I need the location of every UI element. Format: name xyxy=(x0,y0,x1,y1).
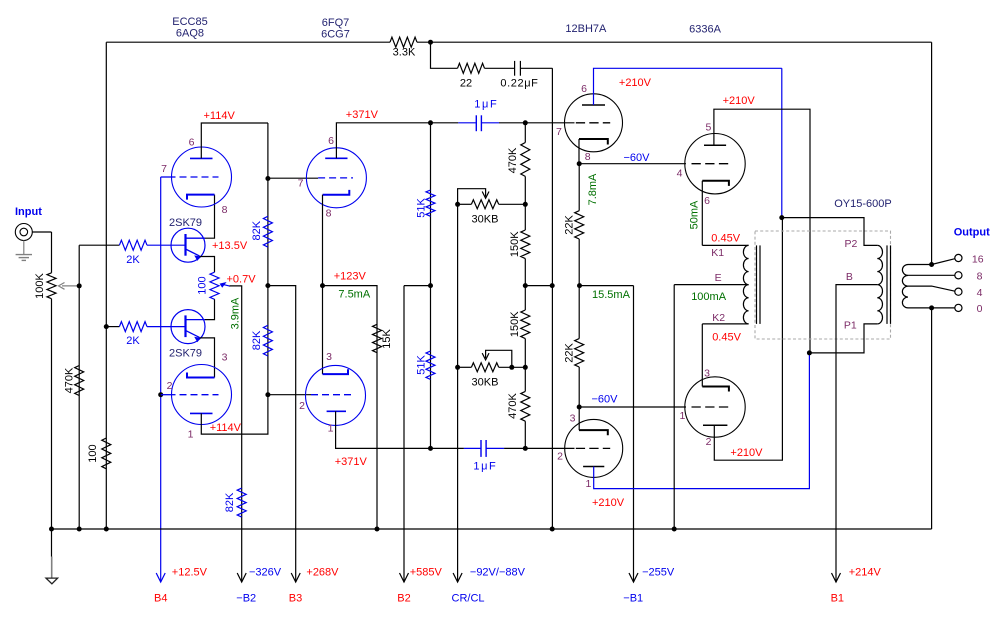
svg-text:3.3K: 3.3K xyxy=(393,46,416,58)
svg-text:50mA: 50mA xyxy=(689,200,701,229)
svg-text:B2: B2 xyxy=(397,593,410,605)
svg-text:−60V: −60V xyxy=(624,152,651,164)
svg-text:6: 6 xyxy=(189,137,195,149)
svg-text:+210V: +210V xyxy=(592,497,625,509)
svg-text:51K: 51K xyxy=(416,355,428,375)
svg-text:1: 1 xyxy=(585,478,591,490)
svg-text:7.5mA: 7.5mA xyxy=(338,289,370,301)
svg-text:−60V: −60V xyxy=(592,394,619,406)
svg-text:K2: K2 xyxy=(712,312,725,324)
svg-text:6: 6 xyxy=(704,195,710,207)
svg-text:1: 1 xyxy=(328,422,334,434)
svg-text:2SK79: 2SK79 xyxy=(169,348,202,360)
svg-text:OY15-600P: OY15-600P xyxy=(834,198,891,210)
svg-text:+268V: +268V xyxy=(306,566,339,578)
svg-text:+114V: +114V xyxy=(204,110,236,122)
svg-text:15.5mA: 15.5mA xyxy=(592,289,631,301)
svg-text:0: 0 xyxy=(977,303,983,315)
svg-text:3: 3 xyxy=(570,413,576,425)
svg-text:5: 5 xyxy=(705,122,711,134)
svg-text:470K: 470K xyxy=(507,147,519,173)
svg-text:K1: K1 xyxy=(711,247,724,259)
svg-text:7.8mA: 7.8mA xyxy=(587,173,599,205)
svg-text:6336A: 6336A xyxy=(689,23,721,35)
svg-text:+13.5V: +13.5V xyxy=(212,240,248,252)
svg-text:16: 16 xyxy=(972,253,984,265)
svg-text:−92V/−88V: −92V/−88V xyxy=(470,566,526,578)
svg-text:+371V: +371V xyxy=(335,456,368,468)
svg-text:−255V: −255V xyxy=(642,566,675,578)
svg-text:30KB: 30KB xyxy=(472,214,499,226)
svg-text:1μF: 1μF xyxy=(473,460,497,472)
svg-text:+371V: +371V xyxy=(346,109,379,121)
svg-text:B4: B4 xyxy=(154,593,167,605)
svg-text:2K: 2K xyxy=(126,254,140,266)
svg-text:6CG7: 6CG7 xyxy=(321,28,350,40)
svg-text:3: 3 xyxy=(326,351,332,363)
svg-text:1: 1 xyxy=(679,410,685,422)
svg-text:6AQ8: 6AQ8 xyxy=(176,27,204,39)
svg-text:−B2: −B2 xyxy=(236,593,256,605)
svg-text:82K: 82K xyxy=(251,330,263,350)
svg-text:+585V: +585V xyxy=(410,566,443,578)
svg-text:6FQ7: 6FQ7 xyxy=(322,17,350,29)
svg-text:7: 7 xyxy=(161,163,167,175)
svg-text:1: 1 xyxy=(188,429,194,441)
svg-text:2K: 2K xyxy=(126,335,140,347)
svg-text:7: 7 xyxy=(298,178,304,190)
svg-text:+210V: +210V xyxy=(723,95,756,107)
svg-text:B3: B3 xyxy=(289,593,302,605)
svg-text:0.45V: 0.45V xyxy=(711,232,740,244)
svg-text:470K: 470K xyxy=(507,392,519,418)
svg-text:15K: 15K xyxy=(381,329,393,349)
svg-text:+210V: +210V xyxy=(730,447,763,459)
svg-text:P1: P1 xyxy=(844,320,857,332)
svg-text:8: 8 xyxy=(977,271,983,283)
svg-text:22K: 22K xyxy=(564,342,576,362)
svg-text:−B1: −B1 xyxy=(623,593,643,605)
svg-text:3.9mA: 3.9mA xyxy=(230,297,242,329)
svg-text:6: 6 xyxy=(328,135,334,147)
svg-text:8: 8 xyxy=(585,151,591,163)
svg-text:6: 6 xyxy=(581,83,587,95)
svg-text:ECC85: ECC85 xyxy=(172,16,207,28)
svg-text:4: 4 xyxy=(977,287,983,299)
svg-text:470K: 470K xyxy=(64,367,76,393)
svg-text:2: 2 xyxy=(299,400,305,412)
svg-text:30KB: 30KB xyxy=(472,377,499,389)
svg-text:P2: P2 xyxy=(845,238,858,250)
svg-text:0.22μF: 0.22μF xyxy=(500,77,538,89)
svg-text:100mA: 100mA xyxy=(691,291,727,303)
svg-text:2: 2 xyxy=(706,436,712,448)
svg-text:+114V: +114V xyxy=(210,422,242,434)
svg-text:22K: 22K xyxy=(564,214,576,234)
svg-text:2: 2 xyxy=(557,451,563,463)
svg-text:82K: 82K xyxy=(251,220,263,240)
svg-text:B1: B1 xyxy=(831,593,844,605)
svg-text:150K: 150K xyxy=(509,231,521,257)
svg-text:51K: 51K xyxy=(416,198,428,218)
svg-text:2SK79: 2SK79 xyxy=(169,217,202,229)
svg-text:+12.5V: +12.5V xyxy=(172,566,208,578)
svg-text:2: 2 xyxy=(167,380,173,392)
svg-text:−326V: −326V xyxy=(249,566,282,578)
svg-text:+210V: +210V xyxy=(619,77,652,89)
svg-text:0.45V: 0.45V xyxy=(712,332,741,344)
svg-text:Output: Output xyxy=(954,226,990,238)
svg-text:4: 4 xyxy=(677,167,683,179)
svg-text:150K: 150K xyxy=(509,311,521,337)
svg-text:B: B xyxy=(846,271,853,283)
svg-text:82K: 82K xyxy=(224,492,236,512)
svg-text:+214V: +214V xyxy=(849,566,882,578)
svg-text:100: 100 xyxy=(197,276,209,294)
svg-text:1μF: 1μF xyxy=(474,99,498,111)
svg-text:12BH7A: 12BH7A xyxy=(565,23,607,35)
svg-text:8: 8 xyxy=(222,204,228,216)
svg-text:7: 7 xyxy=(556,126,562,138)
svg-text:3: 3 xyxy=(704,367,710,379)
svg-text:+0.7V: +0.7V xyxy=(227,274,257,286)
svg-text:100: 100 xyxy=(87,444,99,462)
svg-text:22: 22 xyxy=(460,77,472,89)
svg-text:+123V: +123V xyxy=(334,271,367,283)
svg-text:3: 3 xyxy=(222,352,228,364)
svg-text:8: 8 xyxy=(326,208,332,220)
svg-text:E: E xyxy=(715,272,722,284)
svg-text:100K: 100K xyxy=(34,272,46,298)
svg-text:Input: Input xyxy=(15,206,42,218)
svg-text:CR/CL: CR/CL xyxy=(452,593,485,605)
